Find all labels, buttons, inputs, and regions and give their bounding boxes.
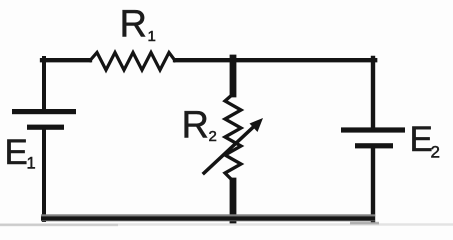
svg-text:R: R: [120, 4, 147, 46]
svg-text:R: R: [182, 105, 209, 147]
svg-text:2: 2: [209, 128, 217, 145]
svg-text:E: E: [5, 133, 28, 172]
svg-text:2: 2: [431, 143, 440, 162]
svg-text:E: E: [410, 120, 433, 159]
svg-text:1: 1: [148, 28, 156, 45]
svg-text:1: 1: [27, 155, 36, 173]
